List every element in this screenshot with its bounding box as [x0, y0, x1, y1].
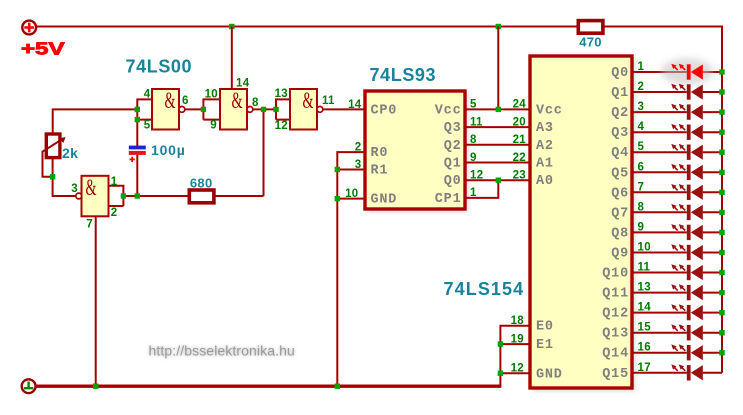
watermark url [149, 343, 295, 359]
wire U1B out to U1C inputs [253, 108, 276, 110]
svg-text:10: 10 [205, 89, 218, 101]
svg-text:8: 8 [470, 134, 477, 146]
junction GND93 [335, 196, 340, 201]
junction LED D8 anode / rail [719, 210, 724, 215]
svg-text:17: 17 [638, 362, 651, 374]
wire Q8 output to LED [632, 231, 722, 233]
svg-text:Q6: Q6 [611, 186, 629, 201]
svg-text:14: 14 [348, 99, 362, 111]
wire Q9 output to LED [632, 252, 722, 254]
junction U1A input / trimmer wire [135, 107, 140, 112]
svg-text:2: 2 [111, 207, 118, 219]
wire U1A input node down to capacitor [136, 120, 138, 146]
svg-text:Q4: Q4 [611, 146, 629, 161]
LED D7 [671, 184, 703, 200]
svg-text:7: 7 [638, 181, 645, 193]
ground symbol [22, 379, 36, 393]
wire U1B Vcc pin14 from top rail [231, 27, 233, 90]
wire top rail right segment and right LED rail [603, 27, 722, 373]
junction Vcc bus [496, 107, 501, 112]
wire Q10 output to LED [632, 272, 722, 274]
wire trimmer bottom lead [52, 158, 54, 177]
wire Vcc 74LS93 to 74LS154 [465, 108, 530, 110]
svg-text:8: 8 [638, 201, 645, 213]
wire RC node row (680 wire) [123, 195, 263, 197]
svg-text:18: 18 [511, 315, 525, 327]
svg-text:http://bsselektronika.hu: http://bsselektronika.hu [149, 343, 295, 359]
gate U1B 74LS00 (pins 10,9 -> 8) [220, 89, 247, 130]
svg-text:Q9: Q9 [611, 246, 629, 261]
svg-text:Q3: Q3 [611, 126, 629, 141]
wire trimmer top to gate U1A inputs [53, 109, 138, 134]
svg-text:11: 11 [470, 116, 483, 128]
svg-text:680: 680 [190, 176, 213, 191]
wire +5V top rail [36, 26, 578, 28]
junction LED D5 anode / rail [719, 150, 724, 155]
LED D5 [671, 144, 703, 160]
svg-text:Q10: Q10 [602, 267, 629, 282]
capacitor C1 100u plates [129, 146, 146, 162]
svg-text:Q14: Q14 [602, 347, 629, 362]
wire Vcc bus from top rail [497, 27, 499, 110]
LED D3 [671, 104, 703, 120]
junction GND154 [498, 371, 503, 376]
svg-text:12: 12 [511, 363, 524, 375]
svg-text:14: 14 [236, 78, 250, 90]
wire Q2 output to LED [632, 111, 722, 113]
wire 74LS154 GND pin12 [500, 372, 530, 374]
svg-text:Q15: Q15 [602, 367, 629, 382]
LED D9 [671, 224, 703, 240]
svg-text:+5V: +5V [21, 38, 65, 58]
svg-text:1: 1 [470, 187, 477, 199]
LED D2 [671, 84, 703, 100]
junction U1D inputs / RC wire [121, 193, 126, 198]
wire Q3 to 74LS154 [465, 126, 530, 128]
svg-text:A2: A2 [536, 139, 554, 154]
gate U1D 74LS00 flipped (pins 1,2 -> 3) [82, 176, 109, 217]
svg-text:22: 22 [513, 152, 526, 164]
output bubble U1A [179, 107, 185, 113]
svg-text:74LS93: 74LS93 [370, 65, 437, 85]
svg-text:2k: 2k [62, 145, 78, 161]
junction capacitor / RC wire [135, 193, 140, 198]
svg-text:CP1: CP1 [435, 192, 462, 207]
junction LED D3 anode / rail [719, 109, 724, 114]
LED D16 [671, 364, 703, 380]
junction LED D11 anode / rail [719, 270, 724, 275]
wire Q14 output to LED [632, 352, 722, 354]
svg-text:2: 2 [638, 81, 645, 93]
wire ground bottom rail [36, 385, 502, 388]
resistor 680 [189, 190, 214, 203]
svg-text:74LS154: 74LS154 [444, 279, 525, 299]
svg-text:3: 3 [71, 183, 78, 195]
LED D4 [671, 124, 703, 140]
wire U1B input tie (pins 10,9) [203, 99, 220, 119]
IC U2 74LS93 body [368, 94, 468, 212]
wire U1C input tie (pins 13,12) [276, 99, 290, 119]
wire E1 tie [500, 343, 530, 345]
LED D6 [671, 164, 703, 180]
wire U1D pin 7 (GND) to bottom rail [95, 216, 97, 386]
svg-text:R0: R0 [371, 146, 389, 161]
output bubble U1D [76, 193, 82, 199]
svg-text:4: 4 [144, 89, 151, 101]
LED D10 [671, 244, 703, 260]
LED D13 [671, 304, 703, 320]
svg-text:Q0: Q0 [611, 66, 629, 81]
svg-text:16: 16 [638, 342, 651, 354]
svg-text:A3: A3 [536, 121, 554, 136]
svg-text:11: 11 [638, 262, 651, 274]
wire Q1 to 74LS154 [465, 162, 530, 164]
junction U1A pin5 row [135, 117, 140, 122]
junction pin7 / ground rail [93, 384, 98, 389]
junction LED D9 anode / rail [719, 230, 724, 235]
junction trimmer wiper node [50, 174, 55, 179]
wire Q5 output to LED [632, 171, 722, 173]
wire Q3 output to LED [632, 131, 722, 133]
wire U1A input tie (pins 4,5) [137, 99, 152, 119]
LED D11 [671, 264, 703, 280]
svg-text:13: 13 [275, 88, 288, 100]
svg-text:CP0: CP0 [371, 103, 398, 118]
svg-text:A1: A1 [536, 157, 554, 172]
wire Q12 output to LED [632, 312, 722, 314]
junction LED D7 anode / rail [719, 190, 724, 195]
wire trimmer wiper lead [43, 151, 53, 177]
junction R1 [335, 167, 340, 172]
gate U1A 74LS00 (pins 4,5 -> 6) [152, 89, 179, 130]
wire Q13 output to LED [632, 332, 722, 334]
wire Q4 output to LED [632, 151, 722, 153]
junction U1B input tie [201, 107, 206, 112]
svg-text:&: & [303, 88, 314, 113]
svg-text:9: 9 [470, 152, 477, 164]
svg-text:&: & [165, 88, 176, 113]
svg-text:9: 9 [210, 119, 217, 131]
svg-text:Vcc: Vcc [435, 103, 462, 118]
trimmer resistor 2k [43, 134, 65, 158]
wire R1 tie [337, 169, 365, 171]
junction LED D1 anode / rail [719, 69, 724, 74]
svg-text:Q5: Q5 [611, 166, 629, 181]
svg-text:Q13: Q13 [602, 327, 629, 342]
svg-text:Q2: Q2 [444, 139, 462, 154]
svg-text:7: 7 [86, 219, 93, 231]
svg-text:5: 5 [638, 141, 645, 153]
resistor 470 [578, 21, 603, 34]
LED D14 [671, 324, 703, 340]
output bubble U1B [247, 107, 253, 113]
svg-text:12: 12 [275, 120, 288, 132]
junction LED D14 anode / rail [719, 330, 724, 335]
svg-text:Q12: Q12 [602, 307, 629, 322]
svg-text:3: 3 [638, 101, 645, 113]
svg-text:12: 12 [470, 170, 483, 182]
svg-text:Q11: Q11 [602, 287, 629, 302]
svg-text:4: 4 [638, 121, 645, 133]
junction top rail / ICs Vcc drop [496, 24, 501, 29]
svg-text:10: 10 [638, 241, 651, 253]
svg-text:Q2: Q2 [611, 106, 629, 121]
LED D8 [671, 204, 703, 220]
output bubble U1C [317, 107, 323, 113]
junction U1B out / riser to RC [261, 107, 266, 112]
svg-text:E1: E1 [536, 338, 554, 353]
junction LED D15 anode / rail [719, 350, 724, 355]
junction LED D4 anode / rail [719, 130, 724, 135]
svg-text:E0: E0 [536, 320, 554, 335]
wire RC wire riser to U1B output net [263, 109, 265, 196]
svg-text:19: 19 [511, 333, 524, 345]
svg-text:&: & [232, 88, 243, 113]
svg-text:74LS00: 74LS00 [126, 57, 193, 77]
wire R0 tie [337, 152, 365, 386]
wire Q7 output to LED [632, 211, 722, 213]
wire Q0 output to LED [632, 71, 722, 73]
wire Q6 output to LED [632, 191, 722, 193]
svg-text:20: 20 [513, 116, 526, 128]
wire trimmer node down to gate U1D output [53, 177, 76, 196]
junction U1C input tie [273, 107, 278, 112]
svg-text:&: & [86, 175, 97, 200]
junction E1 [498, 341, 503, 346]
junction Q0 / CP1 [496, 178, 501, 183]
svg-text:8: 8 [252, 97, 259, 109]
svg-text:Q7: Q7 [611, 206, 629, 221]
svg-text:GND: GND [536, 367, 563, 382]
wire U1D input tie (pins 1,2) [109, 186, 124, 206]
svg-text:23: 23 [513, 170, 526, 182]
+5V power symbol [22, 21, 36, 35]
wire Q11 output to LED [632, 292, 722, 294]
svg-text:1: 1 [111, 176, 118, 188]
svg-text:100µ: 100µ [151, 142, 186, 158]
svg-text:470: 470 [579, 35, 602, 50]
svg-text:Q0: Q0 [444, 174, 462, 189]
svg-text:11: 11 [322, 95, 335, 107]
junction LED D6 anode / rail [719, 170, 724, 175]
svg-text:Q1: Q1 [611, 86, 629, 101]
wire U1A out to U1B inputs [185, 108, 204, 110]
junction LED D2 anode / rail [719, 89, 724, 94]
svg-text:Q8: Q8 [611, 226, 629, 241]
svg-text:5: 5 [144, 119, 151, 131]
junction top rail / gate U1B Vcc [229, 24, 234, 29]
LED D12 [671, 284, 703, 300]
wire 74LS93 GND pin10 [337, 198, 365, 200]
svg-text:6: 6 [182, 95, 189, 107]
svg-text:9: 9 [638, 221, 645, 233]
junction LED D13 anode / rail [719, 310, 724, 315]
wire Q0 to 74LS154 [465, 179, 530, 181]
gate U1C 74LS00 (pins 13,12 -> 11) [290, 89, 317, 130]
wire capacitor bottom to RC node [136, 155, 138, 196]
svg-text:Vcc: Vcc [536, 103, 563, 118]
svg-text:24: 24 [513, 99, 527, 111]
svg-text:R1: R1 [371, 164, 389, 179]
wire CP1 feedback from Q0 [465, 180, 498, 198]
LED D15 [671, 344, 703, 360]
svg-text:13: 13 [638, 282, 651, 294]
wire Q1 output to LED [632, 91, 722, 93]
IC U3 74LS154 body [533, 59, 635, 391]
svg-text:Q3: Q3 [444, 121, 462, 136]
svg-text:15: 15 [638, 322, 652, 334]
svg-text:21: 21 [513, 134, 527, 146]
junction R-chain / ground rail [335, 384, 340, 389]
svg-text:6: 6 [638, 161, 645, 173]
svg-text:GND: GND [371, 193, 398, 208]
wire U1C out to 74LS93 CP0 [323, 108, 365, 110]
wire Q2 to 74LS154 [465, 144, 530, 146]
svg-text:5: 5 [470, 99, 477, 111]
LED D1 (lit) [661, 58, 713, 85]
svg-text:1: 1 [638, 61, 645, 73]
svg-text:A0: A0 [536, 174, 554, 189]
wire Q15 output to LED [632, 372, 722, 374]
svg-text:Q1: Q1 [444, 157, 462, 172]
svg-text:14: 14 [638, 302, 652, 314]
junction LED D10 anode / rail [719, 250, 724, 255]
junction LED D12 anode / rail [719, 290, 724, 295]
wire E0 tie [500, 326, 530, 387]
